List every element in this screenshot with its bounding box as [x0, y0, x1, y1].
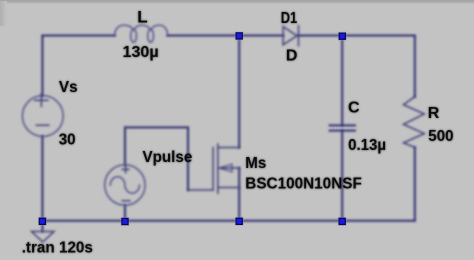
mosfet Ms channel bar	[217, 144, 219, 193]
mosfet Ms body arrow	[219, 164, 232, 172]
wire top rail right segment (diode to right corner)	[299, 35, 415, 37]
wire drain branch	[238, 36, 240, 148]
Vpulse plus sign	[122, 166, 129, 173]
wire right rail above resistor	[414, 36, 416, 97]
wire capacitor branch upper	[341, 36, 343, 126]
ground symbol triangle	[32, 232, 55, 243]
wire top rail left segment	[42, 35, 114, 37]
capacitor C bottom plate	[330, 130, 355, 132]
inductor loop 1	[131, 29, 137, 42]
mosfet Ms gate bar	[212, 148, 214, 191]
inductor L coil	[115, 25, 168, 35]
wire ground stub	[41, 221, 43, 232]
wire gate vertical	[187, 127, 189, 190]
voltage source Vpulse circle	[105, 165, 145, 205]
Vpulse sine wave	[110, 177, 139, 193]
mosfet Ms source stub	[218, 187, 239, 189]
capacitor C top plate	[330, 124, 355, 126]
Vs plus sign	[35, 94, 48, 106]
wire right rail below resistor	[414, 147, 416, 220]
node ground junction	[38, 217, 47, 226]
wire source branch	[238, 168, 240, 221]
node drain/top rail junction	[235, 31, 244, 40]
resistor R zigzag	[404, 97, 425, 148]
wire top rail middle segment (inductor to diode)	[168, 35, 284, 37]
Vpulse minus sign	[122, 200, 130, 202]
wire top-left vertical (Vs to top rail)	[41, 36, 43, 96]
mosfet Ms drain stub	[218, 147, 239, 149]
diode D1 cathode bar	[298, 26, 300, 46]
node source bottom junction	[235, 217, 244, 226]
voltage source Vs circle	[22, 96, 63, 137]
wire Vpulse bottom	[124, 205, 126, 221]
wire left rail below Vs	[41, 136, 43, 220]
node capacitor bottom junction	[338, 217, 347, 226]
wire gate horizontal top	[125, 126, 188, 128]
node capacitor top junction	[338, 32, 347, 41]
wire Vpulse top vertical	[124, 127, 126, 164]
mosfet Ms body stub	[218, 167, 239, 169]
inductor loop 2	[148, 29, 154, 42]
node Vpulse bottom junction	[120, 217, 129, 226]
wire bottom rail	[42, 220, 414, 222]
wire capacitor branch lower	[341, 131, 343, 221]
diode D1 triangle	[283, 27, 297, 45]
Vs minus sign	[36, 124, 49, 126]
mosfet Ms gate lead	[188, 189, 213, 191]
